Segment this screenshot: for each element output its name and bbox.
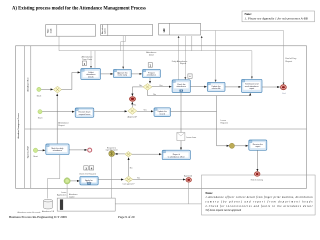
end event E6 — [186, 178, 191, 182]
flow branch down to link event — [217, 96, 230, 146]
flow S2 to task T4b — [42, 111, 74, 113]
svg-text:Supervisor/Staff: Supervisor/Staff — [26, 146, 29, 159]
svg-text:A) Existing process model for: A) Existing process model for the Attend… — [12, 7, 146, 12]
flow GW2 down No to task T5 bottom — [148, 90, 251, 95]
pool Time clock (collapsed) — [46, 25, 96, 37]
svg-text:3.If leave request can be appr: 3.If leave request can be approved — [205, 209, 241, 212]
svg-text:HR: HR — [162, 28, 166, 32]
svg-text:End of clocking: End of clocking — [251, 180, 263, 182]
link event olive circle — [229, 143, 234, 148]
svg-text:Start: Start — [37, 94, 42, 97]
association E5 down to register — [66, 184, 68, 198]
svg-text:Page 9 of 20: Page 9 of 20 — [118, 215, 135, 219]
svg-text:Attendance: Attendance — [146, 51, 157, 54]
task T5b Update record — [154, 108, 171, 117]
flow T1 to T2 — [101, 73, 113, 75]
svg-text:Can approve?: Can approve? — [123, 183, 135, 186]
svg-text:home early: home early — [118, 74, 127, 77]
message flow task T4 up to HR — [178, 36, 180, 80]
flow T3 down to GW2 — [149, 78, 151, 84]
flow GW3 Yes to task T5b — [137, 110, 153, 112]
badge box 1 above task T1 — [82, 61, 86, 66]
svg-text:details: details — [88, 76, 94, 79]
svg-text:Attendance Management Process: Attendance Management Process — [17, 113, 20, 139]
task T1 Collect attendance detail — [81, 69, 101, 80]
svg-text:Report: Report — [180, 62, 187, 65]
svg-text:attendance: attendance — [53, 149, 62, 152]
flow L2-1 to hollow end E4 — [69, 149, 87, 151]
event GW-A olive — [109, 151, 115, 157]
message flow HR right edge long route — [201, 31, 284, 85]
svg-text:2.Check for inconsistencies an: 2.Check for inconsistencies and faults i… — [205, 205, 312, 208]
message flow Attendance system to task T2 — [122, 36, 124, 69]
svg-text:1: 1 — [84, 62, 86, 66]
svg-text:report: report — [249, 87, 254, 90]
flow GW3 No up to E1 — [131, 102, 133, 107]
message flow into task T1 (left) — [90, 51, 92, 68]
svg-text:Report: Report — [286, 60, 293, 63]
svg-text:Start: Start — [33, 155, 38, 158]
flow from lane2 task up into GW1 — [56, 94, 58, 144]
svg-text:No: No — [130, 167, 133, 169]
svg-text:detail: detail — [149, 54, 154, 57]
flow T7 down to end E7 — [256, 150, 258, 171]
task L2-3 Inform attendance officer — [162, 150, 190, 160]
flow T5 to T6 — [225, 86, 241, 88]
svg-text:End: End — [282, 93, 285, 95]
flow GW1 to task T1 — [62, 72, 80, 89]
start event S1 — [37, 87, 41, 91]
svg-text:Start: Start — [38, 117, 43, 120]
svg-text:request forms: request forms — [79, 113, 91, 116]
svg-text:Notes:: Notes: — [205, 192, 212, 195]
svg-text:sign the report: sign the report — [105, 149, 118, 152]
svg-text:Attendance DB: Attendance DB — [42, 210, 55, 213]
flow S1 to GW1 — [41, 88, 53, 90]
svg-text:Check the Request: Check the Request — [79, 172, 96, 175]
svg-text:Attendance: Attendance — [58, 121, 69, 124]
message flow HR down to task T4 — [184, 36, 186, 79]
svg-text:Business Process Re-Engineerin: Business Process Re-Engineering ICT 2009 — [9, 215, 67, 219]
flow T4 to T5 — [190, 86, 206, 88]
flow T6 to end E3 — [262, 86, 280, 88]
svg-text:Attendance: Attendance — [81, 55, 93, 58]
message flow branch up into HR pool — [201, 36, 203, 51]
data store cylinder — [44, 199, 53, 209]
svg-text:record: record — [160, 112, 165, 115]
flow GW-B to task L2-3 — [132, 153, 162, 155]
task T3 Prepare attendance report — [143, 69, 161, 77]
task T6 Summarize and send report — [242, 79, 263, 92]
svg-text:Note:: Note: — [245, 12, 252, 16]
svg-text:2: 2 — [149, 64, 151, 68]
svg-text:Request: Request — [221, 122, 229, 125]
svg-text:1. Please see Appendix 1 for s: 1. Please see Appendix 1 for sub process… — [245, 17, 308, 21]
flow T2 to T3 — [131, 73, 141, 75]
svg-text:attendance: attendance — [177, 85, 186, 88]
gateway GW2 — [143, 84, 152, 91]
message flow from Time clock pool — [59, 36, 252, 78]
flow GW4 Yes to end E6 — [133, 179, 186, 181]
start event S3 — [33, 148, 37, 152]
task T2 Approve leave — [113, 69, 131, 77]
pool HR (collapsed) — [159, 23, 201, 35]
flow GW2 No to end E1 — [132, 87, 143, 96]
svg-text:Leave form: Leave form — [186, 137, 196, 139]
svg-text:Attendance master file records: Attendance master file records — [18, 211, 41, 214]
end event E4 hollow — [88, 148, 92, 152]
association register to E6 — [115, 182, 188, 204]
flow E5 to task L2-2 — [71, 180, 80, 182]
flow link event to task T7 — [235, 145, 249, 147]
svg-text:Yes: Yes — [143, 110, 146, 112]
association L2-1 to data store — [47, 155, 60, 199]
badge box 4 — [89, 166, 93, 171]
message flow jog from pool2 — [121, 36, 126, 51]
message flow into task T5 — [215, 31, 217, 82]
svg-text:to attendance officer: to attendance officer — [168, 155, 185, 158]
flow S3 to task L2-1 — [38, 149, 45, 151]
end event E7 — [255, 172, 260, 176]
notes box — [202, 175, 316, 215]
task T4b Receive leave request — [75, 108, 94, 117]
task T5 Update record — [207, 82, 225, 91]
gateway GW4 — [125, 176, 133, 182]
svg-text:attendance: attendance — [147, 74, 156, 77]
lane divider — [25, 128, 307, 130]
svg-text:+: + — [189, 75, 191, 79]
main pool Attendance Management Process — [16, 46, 307, 189]
gateway GW-B — [125, 152, 132, 157]
flow T4b to GW3 — [94, 110, 127, 112]
task L2-2 with subprocess marker — [80, 176, 98, 185]
svg-text:Approved: Approved — [184, 174, 192, 177]
task T7 — [249, 140, 267, 150]
message flow HR stub — [191, 36, 193, 51]
svg-text:master file: master file — [212, 87, 221, 90]
badge box 2 above task T3 — [148, 63, 152, 68]
gateway GW1 — [53, 86, 61, 93]
svg-text:No: No — [134, 105, 137, 107]
flow T5b right to branch — [171, 110, 217, 112]
svg-text:system: system — [104, 28, 107, 34]
svg-text:End of Day: End of Day — [286, 58, 298, 60]
badge box 3 — [84, 166, 88, 171]
flow T4 down to task L2-3 with data object — [180, 93, 182, 150]
start event S2 — [38, 110, 42, 114]
svg-text:Attendance Officer: Attendance Officer — [26, 77, 29, 91]
end event E3 — [281, 85, 287, 90]
data object letter — [177, 133, 185, 141]
svg-text:report: report — [255, 145, 260, 148]
svg-text:Yes: Yes — [137, 178, 140, 180]
gateway GW3 — [128, 107, 137, 114]
flow L2-2 to GW4 — [98, 179, 123, 181]
flow GW-B to GW-A — [115, 153, 125, 155]
svg-text:register: register — [69, 195, 75, 198]
pool Attendance system (collapsed) — [101, 24, 153, 35]
svg-text:Approved?: Approved? — [127, 116, 138, 119]
intermediate event E5 green — [64, 178, 70, 184]
svg-text:1.Attendance officer collect d: 1.Attendance officer collect detail from… — [205, 196, 313, 199]
note box top right — [242, 11, 315, 22]
end event E1 (reject) — [130, 97, 136, 102]
svg-text:Application: Application — [57, 194, 66, 197]
task L2-1 Mark the attendance — [46, 144, 69, 155]
svg-text:Report: Report — [58, 124, 65, 127]
association GW-A down to register — [111, 157, 113, 199]
task T4 Check attendance (with sub-process) — [172, 80, 190, 93]
attendance register box — [57, 198, 115, 211]
message flow into task T1 (right) — [94, 51, 96, 68]
svg-text:Time Data: Time Data — [82, 58, 93, 61]
badge box plus above task T4 — [188, 74, 192, 79]
flow GW2 Yes to task T4 — [152, 86, 171, 88]
flow GW4 No up to GW-B — [128, 158, 130, 177]
svg-text:Yes: Yes — [159, 85, 162, 87]
svg-text:camera (by phone) and report f: camera (by phone) and report from depart… — [205, 201, 312, 204]
